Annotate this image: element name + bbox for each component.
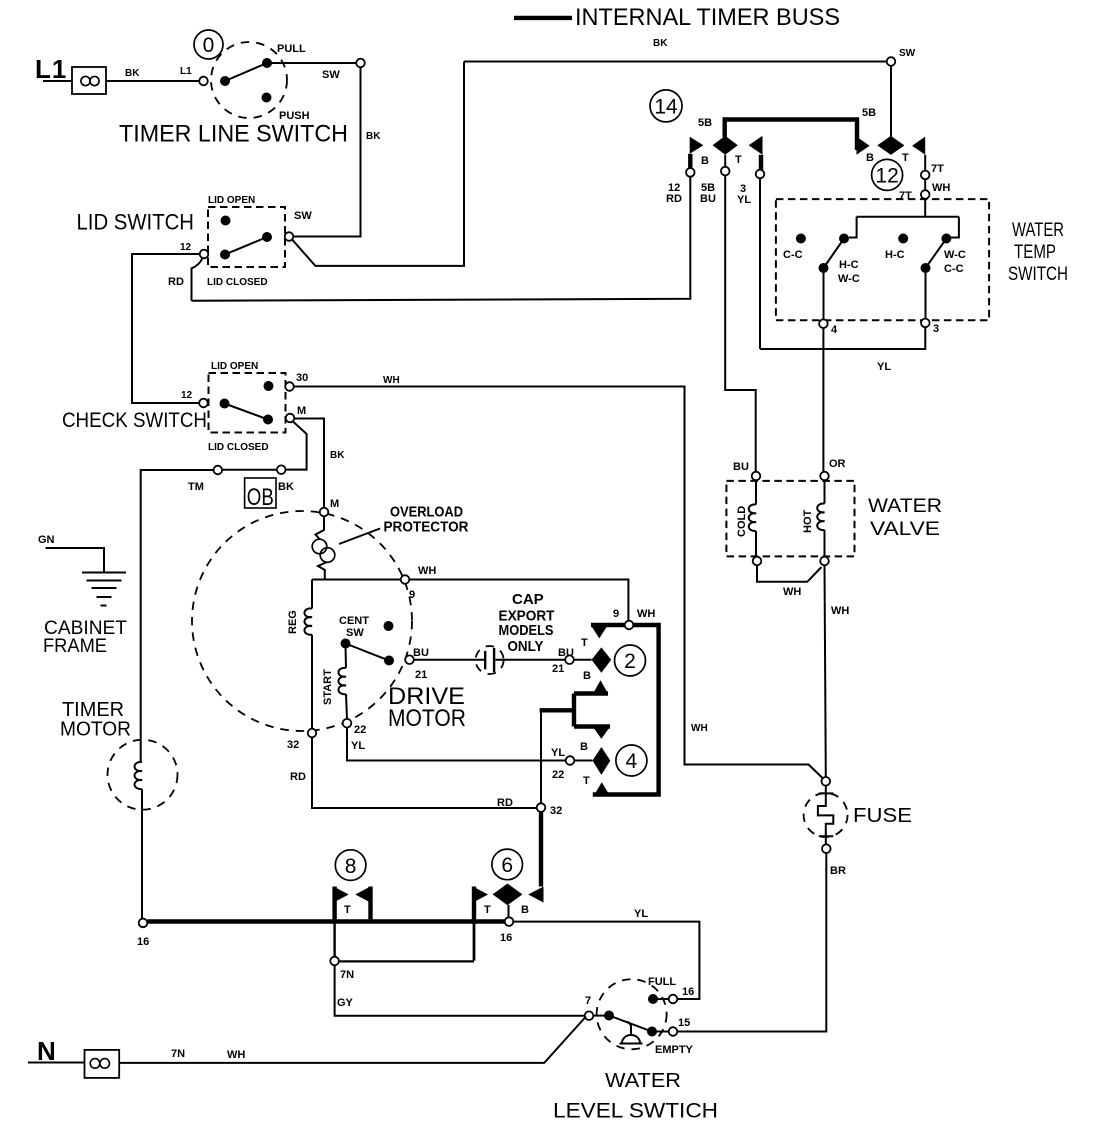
cam 12 diamond [877,136,904,155]
temp switch contact H-C (open) [898,234,908,244]
svg-text:HOT: HOT [802,510,814,534]
svg-text:C-C: C-C [944,263,964,275]
temp switch contact H-C/W-C [839,234,849,244]
label T [484,904,491,916]
label C-C [783,249,803,261]
wire L1 lead [43,80,72,82]
label WH [783,586,801,598]
svg-text:T: T [902,152,909,164]
label BK [278,481,294,493]
svg-text:FUSE: FUSE [853,805,912,827]
wire OR: temp switch 4 to water valve HOT [822,328,824,472]
terminal 9 WH on cam 2 [625,621,634,630]
label RD [290,771,306,783]
water level switch pressure dome [620,1022,643,1044]
label HOT (rotated) [802,510,814,534]
svg-text:CHECK SWITCH: CHECK SWITCH [62,409,207,432]
label T [735,154,742,166]
label BK [330,450,345,461]
svg-text:MOTOR: MOTOR [388,705,466,732]
terminal 12 RD [686,168,695,177]
label WH [831,605,849,617]
svg-text:32: 32 [550,805,562,817]
label YL [877,361,891,373]
label 12 [180,242,192,253]
cam 14 B stem [688,154,692,168]
label BU [733,461,749,473]
cam 2 bottom contact triangle [593,680,609,694]
circled 2 [615,645,646,676]
svg-text:9: 9 [613,608,619,620]
water level switch arm to EMPTY [609,1016,652,1032]
svg-text:YL: YL [737,194,751,206]
label BU [558,647,574,659]
label 9 [613,608,619,620]
timer motor label [60,699,131,741]
svg-text:BU: BU [413,647,429,659]
svg-text:W-C: W-C [944,249,966,261]
svg-text:WATER: WATER [1012,220,1064,241]
svg-text:TEMP: TEMP [1014,242,1056,263]
label T [344,904,351,916]
svg-text:14: 14 [654,96,678,119]
label TIMER LINE SWITCH [119,121,348,148]
drive motor terminal M [320,508,329,517]
label WH [637,608,655,620]
svg-text:REG: REG [287,610,299,634]
node terminal 32 [537,803,546,812]
svg-text:9: 9 [409,589,415,601]
water valve HOT solenoid [817,480,824,556]
label REG (rotated) [287,610,299,634]
cam 4 diamond [593,747,611,775]
label 22 [354,724,366,736]
svg-text:INTERNAL TIMER BUSS: INTERNAL TIMER BUSS [575,4,840,31]
svg-text:RD: RD [290,771,306,783]
cam 8 left stem down to 7N [332,887,336,957]
label BR [830,865,846,877]
label 16 [500,932,512,944]
label COLD (rotated) [736,506,748,537]
wire TM-BK run to timer motor [141,470,277,762]
water level switch EMPTY contact [647,1027,657,1037]
svg-text:CENT: CENT [339,615,369,627]
wire BK from check switch M to drive motor M [294,419,324,508]
temp switch right arm [926,239,947,269]
ground (cabinet frame) [82,573,126,606]
wire FULL contact to terminal 16 [653,998,669,1000]
svg-text:BK: BK [278,481,294,493]
wire 7N to cam 6 T stem [339,960,474,962]
svg-text:ONLY: ONLY [508,638,544,655]
cent sw arm [346,644,390,661]
label H-C [885,249,905,261]
wire EMPTY contact to terminal 15 [652,1031,669,1033]
cam 6 diamond stem to node 16 [508,905,510,917]
label WATER LEVEL SWTICH [553,1070,718,1123]
terminal 7T [921,171,930,180]
svg-text:OB: OB [247,484,274,511]
cam 6 left contact triangle [473,887,488,903]
svg-text:BU: BU [558,647,574,659]
svg-text:WH: WH [418,565,436,577]
svg-text:WH: WH [783,586,801,598]
label B [583,670,591,682]
label 22 [552,769,564,781]
svg-text:7T: 7T [899,190,912,202]
wire GY from 7N to water level switch 7 [335,965,585,1015]
label FULL [648,976,676,988]
lid switch arm to LID CLOSED contact [225,237,267,255]
drive motor left branch with REG winding [304,580,312,729]
terminal 15 EMPTY [669,1027,678,1036]
cam 14 left contact triangle B [690,137,704,154]
terminal 5B BU [721,167,730,176]
svg-text:LID OPEN: LID OPEN [211,361,258,372]
label T [902,152,909,164]
svg-text:30: 30 [296,372,308,384]
water level switch terminal 7 [585,1011,594,1020]
label WATER VALVE [868,496,942,540]
fuse bottom terminal [822,844,831,853]
label B [866,152,874,164]
svg-text:L1: L1 [180,66,192,77]
timer line switch PUSH contact [262,93,272,103]
svg-text:YL: YL [877,361,891,373]
wire PULL to SW terminal [267,62,356,64]
svg-text:YL: YL [351,740,365,752]
svg-text:WH: WH [932,182,950,194]
cam 2 diamond [592,647,612,672]
terminal 3 [921,319,930,328]
label BK [125,68,140,79]
label BK [366,131,381,142]
svg-text:4: 4 [831,324,838,336]
svg-text:7: 7 [585,995,591,1007]
circled 12 [872,159,903,190]
lid switch terminal SW [285,232,294,241]
label 7T [931,163,944,175]
terminal 7N [330,957,339,966]
water valve terminal OR [820,472,829,481]
wire YL from motor 22 to cam 4 [347,728,566,761]
svg-text:WATER: WATER [605,1070,681,1092]
wire BK down from SW to lid switch SW [293,67,360,236]
svg-text:C-C: C-C [783,249,803,261]
svg-text:OR: OR [829,458,846,470]
check switch dashed box [209,373,286,433]
cent sw pivot contact [341,639,351,649]
wire node 32 up to cam block step [540,710,542,803]
fuse element [818,786,833,845]
label GY [337,997,354,1009]
label WH [932,182,950,194]
water level switch pivot contact [604,1011,614,1021]
svg-text:SW: SW [346,627,364,639]
svg-text:H-C: H-C [839,259,859,271]
water temp switch internal feed wire [849,199,959,238]
lid switch label [77,210,195,235]
terminal 16 timer motor [139,919,148,928]
timer line switch dashed enclosure [211,42,287,118]
label 4 [831,324,838,336]
terminal 3 YL [756,170,765,179]
terminal SW of timer line switch [356,59,365,68]
label M [297,405,306,417]
svg-text:YL: YL [551,747,565,759]
connector plug L1 [72,67,106,94]
svg-text:T: T [581,637,588,649]
cam 14: circled 14 [650,90,682,122]
lid switch LID OPEN contact [221,216,231,226]
cam 12: wire SW down to diamond [890,66,892,137]
svg-text:BK: BK [653,38,668,49]
svg-text:22: 22 [552,769,564,781]
check switch common contact [220,399,230,409]
svg-text:MOTOR: MOTOR [60,719,131,741]
timer line switch terminal L1 [199,77,208,86]
label W-C C-C [944,249,966,275]
svg-text:T: T [735,154,742,166]
svg-text:TM: TM [188,481,204,493]
label 9 [409,589,415,601]
svg-text:SWITCH: SWITCH [1008,264,1068,285]
label LID OPEN [208,195,255,206]
svg-text:32: 32 [287,739,299,751]
check switch terminal 12 [199,399,208,408]
svg-text:WH: WH [831,605,849,617]
svg-text:RD: RD [168,276,184,288]
label SW [322,69,340,81]
wire RD: lid switch 12 down to long RD run [192,258,203,301]
cam switch block 2/4 thick frame [591,625,659,795]
label B [701,155,709,167]
label YL [634,908,648,920]
wire RD long run to cam 14 terminal 12 [192,177,691,301]
label 7T [899,190,912,202]
terminal SW at cam 12 [887,57,896,66]
label FUSE [853,805,912,827]
wire YL: cam14 T terminal to temp switch 3 [760,327,925,349]
svg-text:WH: WH [637,608,655,620]
svg-text:BK: BK [125,68,140,79]
label 3 [933,323,939,335]
water valve COLD solenoid [749,480,756,556]
water level switch dashed circle [597,979,667,1049]
svg-text:CAP: CAP [512,591,544,608]
cam 12 T stem to 7T [924,155,926,171]
svg-text:BU: BU [700,193,716,205]
drive motor terminal 21 BU [405,655,414,664]
terminal 22 YL at cam 4 [566,756,575,765]
svg-text:21: 21 [415,669,427,681]
label 32 [550,805,562,817]
wire YL from cam 14 T down [759,178,761,349]
timer line switch PULL contact [262,58,272,68]
svg-text:YL: YL [634,908,648,920]
wire 7T to water temp switch [924,179,926,190]
label 5B BU [700,182,716,205]
label WATER TEMP SWITCH [1008,220,1068,285]
svg-text:SW: SW [899,48,916,59]
label L1 terminal [180,66,192,77]
svg-text:8: 8 [345,855,357,878]
svg-text:GN: GN [38,534,55,546]
drive motor dashed circle [192,511,412,731]
label 15 [678,1017,690,1029]
label START (rotated) [322,669,334,705]
label EMPTY [655,1044,694,1056]
svg-text:7N: 7N [340,969,354,981]
wire WH from check switch 30 to fuse [294,387,823,779]
svg-text:FULL: FULL [648,976,676,988]
label 16 [137,936,149,948]
timer line switch: circled 0 [194,30,223,59]
svg-text:SW: SW [294,210,312,222]
terminal 16 FULL [669,995,678,1004]
svg-text:LID OPEN: LID OPEN [208,195,255,206]
temp switch right pivot [921,263,931,273]
timer motor dashed circle [108,740,178,810]
svg-text:B: B [580,741,588,753]
wire left pivot to terminal 4 [823,268,825,319]
svg-text:WATER: WATER [868,496,942,517]
svg-text:5B: 5B [698,117,712,129]
wire BR from fuse to water level switch 15 [677,853,826,1032]
svg-text:WH: WH [383,375,400,386]
timer motor winding [135,762,142,919]
fuse dashed circle [804,793,848,837]
svg-text:T: T [583,775,590,787]
label H-C W-C [838,259,860,285]
svg-text:21: 21 [552,663,564,675]
label B [521,904,529,916]
drive motor top bus WH [312,580,628,621]
cent sw closed contact [384,656,394,666]
terminal 21 BU at cam 2 [565,655,574,664]
node L1 (line input) [35,54,67,84]
svg-text:COLD: COLD [736,506,748,537]
timer line switch arm [225,63,267,81]
wire 7 terminal to pivot [593,1015,609,1017]
wire top buss BK to cam 12 [464,61,887,63]
svg-text:5B: 5B [862,107,876,119]
label WH [227,1049,245,1061]
ground GN lead [38,534,104,573]
label 5B [698,117,712,129]
water valve bottom terminal cold [753,557,762,566]
label CENT SW [339,615,369,639]
cam 6 left stem [472,887,476,961]
temp switch left arm [824,239,845,269]
connector plug N [85,1050,120,1078]
check switch terminal M [286,414,295,423]
svg-text:3: 3 [933,323,939,335]
label 12 [181,390,193,401]
svg-text:0: 0 [203,34,215,57]
label DRIVE MOTOR [388,683,466,732]
label M [330,498,339,510]
cent sw open contact [384,621,394,631]
label OR [829,458,846,470]
water valve terminal BU [752,472,761,481]
svg-text:BU: BU [733,461,749,473]
label 7N [171,1048,185,1060]
label LID CLOSED [208,442,269,453]
wire WH joining valve returns [757,565,822,582]
cam 14 T stem [759,155,763,170]
water level switch FULL contact [648,994,658,1004]
svg-text:RD: RD [497,797,513,809]
label BU [413,647,429,659]
svg-text:LID CLOSED: LID CLOSED [207,277,268,288]
lid switch dashed box [208,207,285,267]
svg-text:BR: BR [830,865,846,877]
overload protector [312,516,335,579]
svg-text:BK: BK [330,450,345,461]
check switch LID OPEN contact [264,381,274,391]
cam 6: circled 6 [492,849,523,880]
svg-text:T: T [484,904,491,916]
box OB [245,478,276,511]
legend: internal timer buss sample line [514,16,572,20]
label 32 [287,739,299,751]
svg-text:M: M [297,405,306,417]
thick wire node 32 down to cam 6 B contact [539,812,543,887]
svg-text:16: 16 [682,986,694,998]
wire terminal to cam 4 diamond [574,760,592,762]
svg-text:7N: 7N [171,1048,185,1060]
svg-text:12: 12 [875,165,898,188]
lid switch terminal 12 [200,250,209,259]
label B [580,741,588,753]
cam 8 right stem to buss [368,887,372,920]
svg-text:H-C: H-C [885,249,905,261]
label PULL [277,43,306,55]
svg-text:LID CLOSED: LID CLOSED [208,442,269,453]
temp switch contact C-C (open) [796,234,806,244]
svg-text:B: B [701,155,709,167]
label TM [188,481,204,493]
svg-text:LEVEL SWTICH: LEVEL SWTICH [553,1100,718,1123]
wire WH from valve to fuse [825,565,826,777]
cam 2 top contact triangle [591,625,608,638]
svg-text:FRAME: FRAME [43,636,107,657]
node terminal 16 [505,917,514,926]
label BK [653,38,668,49]
temp switch left pivot [819,263,829,273]
svg-text:12: 12 [181,390,193,401]
wire WH 7N from plug to water level switch 7 [119,1017,586,1063]
label RD [497,797,513,809]
label YL [551,747,565,759]
wire N lead [28,1062,85,1064]
svg-text:TIMER LINE SWITCH: TIMER LINE SWITCH [119,121,348,148]
label 21 [415,669,427,681]
check switch label [62,409,207,432]
svg-text:12: 12 [180,242,192,253]
svg-text:B: B [866,152,874,164]
cam 12 right contact triangle T [912,137,925,155]
label 16 [682,986,694,998]
start winding branch [338,646,347,719]
wire 12 of lid switch to check switch 12 [132,254,200,403]
label WH [418,565,436,577]
svg-text:4: 4 [626,750,638,773]
svg-text:WH: WH [691,723,708,734]
label WH [691,723,708,734]
svg-text:PROTECTOR: PROTECTOR [384,519,469,536]
